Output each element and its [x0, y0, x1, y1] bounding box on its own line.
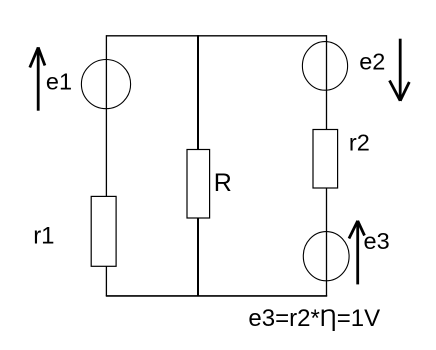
resistor r1 [91, 196, 116, 266]
svg-text:r1: r1 [33, 223, 54, 250]
wire top [106, 35, 326, 37]
resistor r2 [313, 130, 338, 189]
wire bottom [106, 295, 327, 297]
source e3 [303, 232, 349, 281]
source e2 [302, 42, 347, 91]
svg-text:e3=r2*Ƞ=1V: e3=r2*Ƞ=1V [248, 305, 380, 332]
svg-text:R: R [214, 169, 232, 197]
wire right branch [326, 35, 328, 296]
svg-text:e1: e1 [46, 68, 72, 94]
svg-text:e3: e3 [364, 228, 390, 254]
wire left branch [105, 35, 107, 296]
wire middle branch [197, 35, 199, 296]
arrow e2 (down) [390, 39, 410, 101]
svg-text:e2: e2 [359, 49, 385, 75]
svg-text:r2: r2 [349, 130, 370, 156]
arrow e3 (up) [349, 221, 365, 285]
source e1 [81, 60, 130, 109]
arrow e1 (up) [30, 47, 45, 110]
resistor R [187, 150, 210, 219]
